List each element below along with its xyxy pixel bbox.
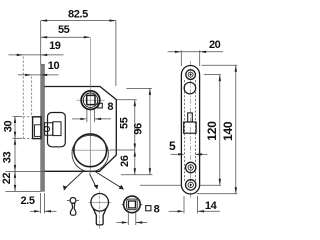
svg-text:55: 55	[119, 117, 131, 129]
svg-text:30: 30	[3, 121, 15, 133]
svg-text:140: 140	[221, 121, 235, 141]
svg-text:8: 8	[154, 203, 160, 215]
svg-text:22: 22	[1, 173, 13, 185]
svg-text:8: 8	[107, 101, 113, 113]
svg-text:120: 120	[205, 121, 219, 141]
svg-text:96: 96	[132, 123, 144, 135]
svg-text:2.5: 2.5	[20, 195, 34, 207]
svg-text:55: 55	[58, 24, 70, 36]
svg-text:19: 19	[49, 40, 61, 52]
svg-text:14: 14	[205, 200, 218, 212]
svg-text:10: 10	[48, 60, 60, 72]
svg-text:33: 33	[2, 152, 14, 164]
svg-text:20: 20	[209, 39, 221, 51]
svg-text:26: 26	[119, 155, 131, 167]
svg-text:5: 5	[169, 139, 176, 153]
svg-text:82.5: 82.5	[68, 8, 88, 20]
